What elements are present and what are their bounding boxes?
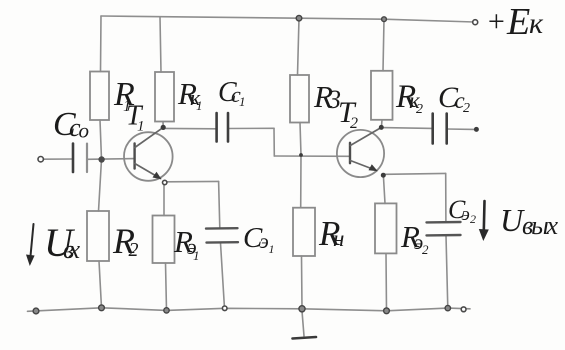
svg-text:вых: вых — [522, 211, 558, 240]
svg-text:э: э — [462, 204, 470, 225]
svg-text:э: э — [260, 229, 269, 253]
svg-text:2: 2 — [350, 115, 358, 132]
svg-text:1: 1 — [137, 119, 145, 135]
svg-text:1: 1 — [196, 98, 203, 113]
svg-text:2: 2 — [129, 239, 139, 261]
svg-text:+: + — [486, 5, 506, 38]
svg-text:1: 1 — [193, 248, 200, 263]
svg-text:2: 2 — [470, 212, 476, 226]
svg-text:E: E — [506, 1, 530, 43]
svg-text:2: 2 — [416, 102, 423, 117]
svg-text:н: н — [333, 226, 344, 251]
svg-text:вх: вх — [63, 235, 80, 264]
svg-text:2: 2 — [422, 242, 429, 257]
svg-text:1: 1 — [269, 242, 275, 256]
svg-text:o: o — [79, 119, 90, 143]
svg-text:2: 2 — [463, 101, 470, 116]
svg-text:1: 1 — [239, 94, 246, 109]
svg-text:к: к — [529, 7, 544, 40]
